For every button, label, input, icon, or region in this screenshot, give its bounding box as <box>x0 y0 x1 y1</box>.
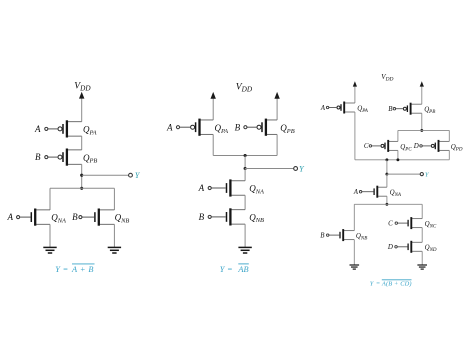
transistor QPB (PMOS) <box>58 149 82 166</box>
transistor QPA (PMOS) <box>191 119 214 136</box>
VDD supply arrow right (circuit 2) <box>274 92 279 120</box>
svg-text:=: = <box>227 265 233 274</box>
svg-text:D: D <box>387 244 393 251</box>
wire QPA drain long vertical (circuit 3) <box>354 112 356 160</box>
svg-text:D: D <box>413 143 419 150</box>
wire PUN bottom rail (circuit 3) <box>355 159 449 161</box>
formula Y = NOT(A(B + CD)) <box>370 280 412 288</box>
transistor QNB (NMOS) <box>340 229 354 241</box>
wire rail to QNC drain (circuit 3) <box>421 204 423 218</box>
output terminal Y (circuit 3) <box>387 171 430 178</box>
wire QPA drain down (circuit 2) <box>212 134 214 155</box>
wire QPA drain to QPB source <box>81 136 83 150</box>
input terminal A for QNA <box>6 212 30 222</box>
ground (circuit 2) <box>238 224 251 253</box>
output terminal Y (circuit 2) <box>245 164 305 173</box>
VDD supply arrow left (circuit 3) <box>353 81 357 103</box>
svg-text:A: A <box>320 105 326 112</box>
svg-text:A(B + CD): A(B + CD) <box>381 281 412 288</box>
wire rail to QNB drain <box>113 188 115 210</box>
junction node Y (circuit 2) <box>244 167 247 170</box>
wire PDN rail (circuit 3) <box>354 203 422 205</box>
transistor QPD (PMOS) <box>431 140 449 152</box>
wire node Y to QNA drain (circuit 2) <box>244 169 246 181</box>
svg-text:B: B <box>235 122 241 132</box>
input terminal B for QPB <box>235 122 257 132</box>
junction node Y (circuit 3) <box>385 173 388 176</box>
svg-text:B: B <box>199 212 205 222</box>
input terminal C for QPC <box>364 143 381 150</box>
wire QPC drain to bottom rail <box>397 150 399 159</box>
wire NMOS parallel rail (circuit 1) <box>50 187 114 189</box>
svg-text:A + B: A + B <box>71 265 93 274</box>
wire CD-parallel top rail (circuit 3) <box>398 129 449 131</box>
wire rail to node Y (circuit 2) <box>244 156 246 169</box>
junction QPB drain / CD-parallel top (circuit 3) <box>420 129 423 132</box>
svg-text:A: A <box>34 124 41 134</box>
transistor QNC (NMOS) <box>408 217 422 229</box>
svg-text:C: C <box>388 220 393 227</box>
transistor QND (NMOS) <box>408 241 422 253</box>
input terminal B for QPB <box>388 106 403 113</box>
transistor QPB (PMOS) <box>403 103 421 115</box>
wire QNA source to PDN rail (circuit 3) <box>386 196 388 204</box>
transistor QPB (PMOS) <box>257 119 277 136</box>
input terminal A for QPA <box>320 105 337 112</box>
output terminal Y (circuit 1) <box>82 171 141 180</box>
transistor QNA (NMOS) <box>31 209 50 226</box>
svg-text:=: = <box>63 265 69 274</box>
junction PDN rail (circuit 1) <box>80 187 83 190</box>
VDD supply arrow left (circuit 2) <box>211 92 216 120</box>
input terminal D for QPD <box>413 143 432 150</box>
input terminal A for QPA <box>34 124 58 134</box>
VDD supply arrow right (circuit 3) <box>420 81 424 104</box>
junction bottom rail / output (circuit 3) <box>385 158 388 161</box>
svg-text:AB: AB <box>237 265 248 274</box>
svg-text:A: A <box>353 189 359 196</box>
ground (under QND, circuit 3) <box>417 251 427 269</box>
input terminal A for QNA <box>353 189 374 196</box>
ground (under QNA) <box>43 224 56 253</box>
transistor QNB (NMOS) <box>95 209 115 226</box>
transistor QNB (NMOS) <box>227 208 246 225</box>
svg-text:B: B <box>72 212 78 222</box>
wire bottom rail to node Y (circuit 3) <box>386 160 388 174</box>
wire rail to QNB drain (circuit 3) <box>353 204 355 230</box>
wire QNC source to QND drain (circuit 3) <box>421 228 423 243</box>
transistor QNA (NMOS) <box>227 179 246 196</box>
transistor QPA (PMOS) <box>58 120 82 137</box>
wire top rail to QPD source <box>448 130 450 141</box>
transistor QPC (PMOS) <box>381 140 398 152</box>
input terminal C for QNC <box>388 220 407 227</box>
input terminal B for QNB <box>199 212 226 222</box>
wire rail to QNA drain <box>49 188 51 210</box>
input terminal D for QND <box>387 244 408 251</box>
junction bottom rail / QPC drain (circuit 3) <box>396 158 399 161</box>
input terminal A for QNA <box>198 183 226 193</box>
svg-text:B: B <box>35 152 41 162</box>
input terminal B for QNB <box>72 212 94 222</box>
svg-text:C: C <box>364 143 369 150</box>
wire QNA source to QNB drain (circuit 2) <box>244 195 246 209</box>
wire QPB drain down to NMOS rail <box>81 164 83 188</box>
svg-text:A: A <box>6 212 13 222</box>
formula Y = NOT(A + B) <box>55 264 94 274</box>
ground (under QNB) <box>108 224 121 253</box>
wire QPB drain down (circuit 2) <box>276 134 278 155</box>
junction node Y (circuit 1) <box>80 174 83 177</box>
VDD supply arrow (circuit 1) <box>79 92 84 122</box>
wire top rail to QPC source <box>397 130 399 141</box>
wire node Y to QNA drain (circuit 3) <box>386 174 388 187</box>
formula Y = NOT(AB) <box>220 264 249 274</box>
input terminal B for QPB <box>35 152 58 162</box>
svg-text:=: = <box>376 281 380 288</box>
ground (under QNB, circuit 3) <box>350 240 360 270</box>
input terminal A for QPA <box>166 122 191 132</box>
svg-text:A: A <box>198 183 205 193</box>
junction PMOS rail (circuit 2) <box>244 154 247 157</box>
wire PMOS common rail (circuit 2) <box>213 155 277 157</box>
wire QPD drain to bottom rail <box>448 150 450 159</box>
svg-text:A: A <box>166 122 173 132</box>
input terminal B for QNB <box>320 232 339 239</box>
junction PDN rail (circuit 3) <box>385 203 388 206</box>
wire QPB drain down (circuit 3) <box>421 113 423 130</box>
transistor QPA (PMOS) <box>337 102 355 114</box>
transistor QNA (NMOS) <box>374 186 387 198</box>
